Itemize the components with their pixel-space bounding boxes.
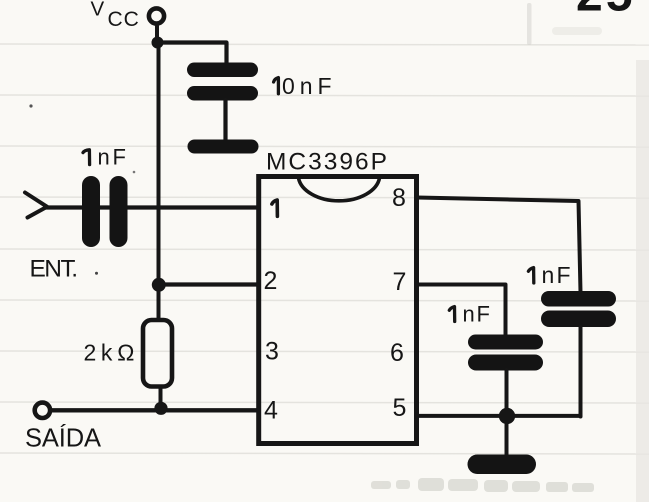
svg-text:ENT.: ENT.	[30, 256, 79, 283]
svg-text:nF: nF	[463, 302, 491, 327]
resistor R1 2k body	[143, 320, 172, 387]
wire VCC junction to C1 top plate	[158, 43, 227, 65]
svg-text:SAÍDA: SAÍDA	[25, 424, 101, 453]
svg-text:0nF: 0nF	[282, 73, 332, 99]
capacitor C3 1nF right top plate	[541, 291, 616, 307]
svg-text:CC: CC	[108, 8, 140, 31]
value label 1nF right	[528, 262, 570, 288]
svg-text:nF: nF	[542, 262, 571, 288]
wire resistor bottom to output junction	[159, 387, 163, 408]
capacitor C2 1nF input right plate	[110, 176, 128, 247]
svg-text:25: 25	[576, 0, 636, 22]
svg-text:V: V	[91, 0, 105, 21]
wire VCC terminal to junction	[155, 26, 159, 42]
label Vcc	[91, 0, 140, 31]
wire pin 5 to right rail	[417, 414, 581, 418]
junction dot pin2 node	[152, 278, 166, 292]
wire C1 bottom plate to ground bar	[223, 100, 227, 140]
input terminal arrow ENT	[25, 193, 47, 218]
svg-text:5: 5	[393, 394, 407, 422]
value label 1nF middle	[449, 302, 490, 327]
wire pin 8 to right rail	[417, 198, 581, 293]
wire C4 bottom plate to junction	[505, 370, 509, 416]
capacitor C2 1nF input left plate	[82, 176, 100, 247]
wire junction to pin 2	[159, 282, 258, 286]
terminal SAIDA	[35, 403, 50, 418]
svg-text:8: 8	[392, 184, 406, 212]
pin number 1	[272, 200, 278, 216]
capacitor C4 1nF middle top plate	[468, 335, 543, 350]
wire SAIDA terminal to pin 4	[52, 408, 259, 412]
wire input to pin 1	[45, 205, 258, 209]
ground bar below C1	[188, 140, 259, 154]
value label 1nF input	[83, 145, 126, 170]
junction dot output node	[154, 402, 167, 415]
IC U1 MC3396P body	[259, 177, 417, 444]
wire pin 7 to middle rail	[417, 285, 506, 337]
svg-text:2: 2	[264, 267, 278, 295]
terminal VCC	[149, 8, 164, 23]
capacitor C4 1nF middle bottom plate	[468, 355, 543, 371]
capacitor C1 10nF top plate	[187, 63, 258, 78]
ground bar bottom right	[468, 455, 537, 475]
capacitor C1 10nF bottom plate	[187, 86, 258, 101]
svg-text:4: 4	[264, 397, 278, 425]
wire VCC vertical rail down to resistor	[157, 43, 161, 320]
IC U1 notch	[299, 178, 380, 201]
svg-text:3: 3	[265, 338, 279, 366]
wire junction to ground bar	[505, 416, 509, 455]
junction dot VCC node	[152, 37, 164, 49]
value label 10nF	[274, 73, 332, 99]
svg-text:7: 7	[393, 268, 407, 296]
svg-text:2kΩ: 2kΩ	[84, 340, 135, 366]
wire C3 bottom plate down to pin 5 wire	[579, 327, 583, 417]
junction dot pin5 node	[499, 408, 515, 424]
svg-text:6: 6	[390, 339, 404, 367]
capacitor C3 1nF right bottom plate	[541, 311, 616, 328]
svg-text:nF: nF	[98, 145, 127, 170]
